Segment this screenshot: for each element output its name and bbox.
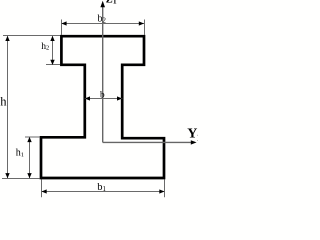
dim h extension top xyxy=(3,35,60,37)
svg-text:Z1: Z1 xyxy=(106,0,117,6)
dim h arrow bottom xyxy=(5,173,9,178)
dim h1 arrow bottom xyxy=(27,173,31,178)
svg-text:h2: h2 xyxy=(41,41,49,52)
dim b1 extension right xyxy=(164,180,166,198)
svg-text:h: h xyxy=(0,95,7,109)
svg-text:1: 1 xyxy=(197,133,198,143)
axis Y1 line xyxy=(103,141,192,143)
svg-text:h1: h1 xyxy=(16,148,24,159)
axis Y1 arrow xyxy=(191,140,197,144)
dim h2 line xyxy=(52,36,54,65)
dim b1 arrow right xyxy=(159,189,164,193)
svg-text:b2: b2 xyxy=(98,14,107,25)
dim h1 line xyxy=(29,138,31,178)
dim b arrow right xyxy=(117,96,122,100)
dim b1 arrow left xyxy=(42,189,47,193)
dim h2 arrow bottom xyxy=(50,60,54,65)
dim h2 arrow top xyxy=(50,36,54,41)
dim b1 line xyxy=(42,191,165,193)
dim h arrow top xyxy=(5,36,9,41)
dim h1 extension top xyxy=(25,136,40,138)
dim h line xyxy=(7,36,9,178)
dim b2 arrow left xyxy=(61,21,66,25)
beam cross-section outline xyxy=(41,36,164,178)
dim b2 line xyxy=(61,23,144,25)
dim b2 arrow right xyxy=(139,21,144,25)
dim h extension bottom xyxy=(2,178,40,180)
axis Z1 line xyxy=(102,7,104,143)
dim b line xyxy=(85,98,122,100)
svg-text:b1: b1 xyxy=(97,182,106,193)
dim h1 arrow top xyxy=(27,137,31,142)
dim b1 extension left xyxy=(41,180,43,198)
dim b arrow left xyxy=(85,96,90,100)
dim h2 extension bottom xyxy=(46,64,60,66)
dim b2 extension right xyxy=(144,20,146,36)
dim b2 extension left xyxy=(61,20,63,36)
svg-text:b: b xyxy=(100,90,105,100)
axis Z1 arrow xyxy=(100,1,105,7)
